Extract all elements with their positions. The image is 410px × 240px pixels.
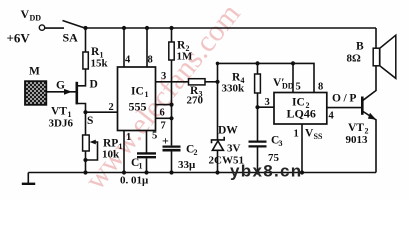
svg-text:1: 1: [126, 132, 131, 143]
resistor R1 top lead: [85, 28, 87, 52]
svg-text:DD: DD: [30, 14, 42, 23]
junction dots pin6 pin7: [169, 103, 173, 107]
svg-text:5: 5: [296, 82, 301, 93]
wire VT1 source to down column: [78, 104, 86, 136]
svg-text:D: D: [90, 79, 98, 91]
IC2 LQ46 box: [274, 93, 327, 125]
junction dot pin2 tee: [83, 110, 87, 114]
label VDD: [21, 7, 42, 23]
wire IC2 pin1 Vss to ground: [301, 124, 303, 173]
svg-text:VT: VT: [51, 106, 67, 118]
VT1 gate arrow: [64, 89, 72, 95]
svg-text:V: V: [21, 7, 30, 21]
capacitor C1 plates: [137, 152, 156, 154]
junction dot R4 C3 pin3 tee: [255, 105, 259, 109]
wire 555 pin6: [156, 104, 172, 106]
wire 555 pin3 to R3: [156, 81, 189, 83]
svg-text:SS: SS: [314, 132, 323, 141]
svg-text:1: 1: [145, 90, 149, 99]
svg-text:6: 6: [160, 108, 165, 119]
wire Vdd2 rail: [218, 63, 315, 92]
speaker B driver: [373, 48, 379, 66]
wire 555 pin8: [146, 28, 148, 67]
resistor R4 top lead: [257, 63, 259, 74]
VT2 emitter: [362, 111, 376, 173]
svg-text:3: 3: [265, 97, 270, 108]
label R3 270: [187, 85, 204, 107]
svg-text:3DJ6: 3DJ6: [49, 118, 74, 130]
transistor VT1 channel bar: [76, 82, 79, 105]
junction dots R3 node: [215, 80, 219, 84]
wire zener column: [217, 82, 219, 140]
svg-text:+6V: +6V: [7, 31, 31, 46]
resistor R4: [255, 74, 261, 93]
label IC1 555: [129, 86, 149, 114]
svg-text:SA: SA: [63, 31, 79, 45]
label V'DD and pins 5 8: [273, 77, 294, 91]
label DW 3V 2CW51: [209, 125, 244, 167]
speaker cone: [380, 35, 396, 78]
label VT1 3DJ6: [49, 106, 74, 130]
svg-text:5: 5: [152, 131, 157, 142]
svg-text:33μ: 33μ: [178, 159, 196, 171]
wire R2 bottom to pin6/7 and C2: [171, 60, 173, 145]
svg-text:1: 1: [139, 162, 143, 171]
svg-text:555: 555: [129, 100, 147, 114]
potentiometer RP1 body: [83, 135, 90, 151]
VT2 emitter arrow: [368, 113, 376, 120]
svg-text:www.elecfans.com: www.elecfans.com: [78, 0, 246, 196]
ground rail: [28, 172, 376, 174]
wire C1 to ground rail: [146, 158, 148, 172]
wire 555 pin7: [156, 117, 172, 119]
wire VT1 gate: [47, 91, 77, 93]
svg-text:B: B: [356, 41, 364, 53]
wire IC2 pin4 O/P to VT2 base: [327, 107, 363, 109]
svg-text:15k: 15k: [91, 58, 109, 70]
resistor R1: [83, 52, 88, 69]
label VT2 9013: [346, 122, 369, 146]
junction dot RP1 wiper: [83, 158, 87, 162]
svg-text:IC: IC: [131, 86, 144, 98]
svg-text:8: 8: [318, 82, 323, 93]
svg-text:DD: DD: [282, 82, 294, 91]
label C2 33u: [178, 144, 198, 172]
wire zener to ground rail: [217, 150, 219, 172]
svg-text:3V: 3V: [227, 143, 241, 155]
wire to IC2 pin3: [258, 106, 275, 108]
junction dots top rail: [83, 26, 87, 30]
svg-text:3: 3: [161, 71, 166, 82]
label R2 1M: [177, 40, 194, 63]
resistor R3: [189, 79, 206, 85]
label RP1 10k: [102, 138, 123, 161]
capacitor C3 plates: [249, 140, 267, 142]
wire R4 bottom to C3: [257, 93, 259, 141]
label Vss: [305, 128, 323, 142]
RP1 wiper wire: [86, 142, 98, 160]
svg-text:VT: VT: [348, 122, 364, 134]
wire C2 to ground rail: [171, 152, 173, 173]
label C1: [131, 157, 143, 171]
svg-text:1M: 1M: [177, 51, 194, 63]
label C3 75: [268, 135, 283, 165]
wire from terminal to switch: [45, 27, 64, 29]
microphone M: [25, 81, 46, 105]
svg-text:ybx8.cn: ybx8.cn: [230, 162, 302, 181]
svg-text:2: 2: [194, 148, 198, 157]
svg-text:LQ46: LQ46: [287, 107, 316, 121]
svg-text:DW: DW: [218, 125, 238, 137]
svg-text:7: 7: [161, 121, 166, 132]
junction dots Vdd2 rail: [255, 61, 259, 65]
label R1 15k: [91, 46, 109, 70]
wire RP1 bottom to ground rail: [85, 151, 87, 173]
power terminal +6V circle: [39, 25, 44, 30]
label B 8ohm: [347, 41, 365, 65]
junction dots bottom rail: [83, 170, 87, 174]
svg-text:G: G: [56, 80, 65, 92]
transistor VT2 base bar: [361, 97, 364, 115]
wire 555 pin4: [123, 28, 125, 67]
svg-text:2: 2: [109, 102, 114, 113]
svg-text:9013: 9013: [346, 134, 369, 146]
resistor R2 top lead: [171, 28, 173, 42]
RP1 wiper arrow: [90, 140, 96, 145]
wire IC2 pin5: [292, 63, 294, 92]
svg-text:1: 1: [294, 129, 299, 140]
svg-text:4: 4: [125, 55, 131, 66]
switch SA blade: [63, 21, 86, 29]
IC 555 box U1: [118, 67, 156, 131]
svg-text:0. 01μ: 0. 01μ: [120, 175, 149, 187]
zener DW: [212, 137, 225, 143]
label R4 330k: [222, 72, 246, 95]
wire 555 pin2: [86, 111, 118, 113]
wire C3 to ground rail: [257, 148, 259, 173]
resistor R2: [169, 42, 174, 60]
wire R3 to zener node: [205, 81, 218, 83]
svg-text:270: 270: [187, 95, 204, 107]
capacitor C2 plates: [163, 146, 181, 148]
VT2 collector: [362, 66, 376, 101]
svg-text:3: 3: [279, 139, 283, 148]
svg-text:8: 8: [148, 55, 153, 66]
wire 555 pin5 to C1: [146, 131, 148, 153]
ground symbol: [27, 173, 29, 184]
wire top rail: [86, 27, 377, 29]
svg-text:M: M: [29, 66, 40, 78]
svg-text:O/P: O/P: [332, 93, 359, 105]
watermark www.elecfans.com diagonal: [78, 0, 246, 196]
svg-text:330k: 330k: [222, 83, 246, 95]
svg-text:4: 4: [329, 111, 335, 122]
svg-text:8Ω: 8Ω: [347, 53, 362, 65]
wire R1 bottom to drain: [78, 69, 86, 86]
label IC2 LQ46: [287, 97, 316, 121]
svg-text:10k: 10k: [102, 149, 120, 161]
wire rail right corner down to speaker: [375, 28, 377, 48]
svg-text:S: S: [87, 115, 93, 127]
svg-text:+: +: [162, 134, 169, 148]
wire 555 pin1 to ground: [123, 131, 125, 173]
